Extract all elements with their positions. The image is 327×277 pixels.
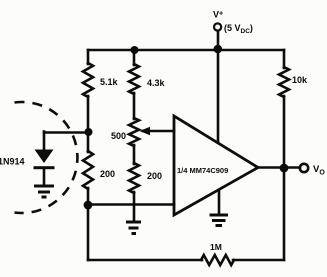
svg-text:5.1k: 5.1k	[100, 77, 119, 87]
node A (diode / 5.1k / 200)	[85, 128, 93, 136]
potentiometer R 500	[129, 118, 139, 146]
op-amp U1 comparator triangle	[174, 116, 258, 215]
wire op-amp ground stub	[218, 191, 221, 214]
svg-text:200: 200	[100, 169, 115, 179]
wire right column (rail corner to 10k)	[283, 50, 286, 68]
ground (middle, below lower-input wire)	[126, 222, 141, 234]
junction dot rail/4.3k	[131, 46, 139, 54]
resistor R 1M (horizontal)	[201, 255, 234, 265]
wire left column upper (rail to 5.1k)	[87, 50, 90, 64]
potentiometer wiper arrow	[140, 127, 151, 135]
wire bottom rail left of 1M	[88, 259, 202, 262]
svg-text:10k: 10k	[292, 75, 308, 85]
output terminal circle Vo	[300, 164, 308, 172]
wire 5.1k to node A	[87, 96, 90, 152]
wire diode node horizontal	[44, 131, 88, 134]
wire bottom rail right of 1M	[233, 259, 284, 262]
node output junction	[280, 164, 289, 173]
wire V+ terminal to rail	[217, 31, 220, 50]
ground (below diode)	[34, 186, 54, 197]
wire lower input (node B to op-amp - input)	[88, 203, 174, 206]
resistor R 4.3k	[129, 64, 139, 94]
svg-text:500: 500	[111, 131, 126, 141]
wire 10k to output node and down to bottom rail	[283, 96, 286, 260]
wire V+ rail to op-amp supply pin	[217, 50, 220, 141]
wire middle column upper (rail to 4.3k)	[133, 50, 136, 65]
dashed light-shield arc around diode	[15, 102, 78, 213]
svg-text:4.3k: 4.3k	[147, 78, 166, 88]
wire 4.3k to pot	[133, 93, 136, 119]
wire diode vertical stub	[43, 132, 46, 151]
junction dot rail/V+	[214, 45, 223, 54]
wire op-amp output	[258, 166, 300, 169]
wire top rail	[88, 49, 284, 52]
svg-text:1M: 1M	[210, 242, 222, 252]
wire diode cathode to ground	[43, 168, 46, 185]
resistor R 200 (left)	[83, 151, 93, 189]
wire pot wiper to op-amp + input	[143, 130, 174, 133]
svg-text:1/4 MM74C909: 1/4 MM74C909	[177, 166, 228, 175]
resistor R 200 (middle)	[129, 163, 139, 193]
resistor R 10k	[279, 67, 289, 97]
svg-text:1N914: 1N914	[0, 157, 25, 167]
V+ terminal circle	[214, 23, 221, 30]
ground (op-amp)	[210, 215, 229, 226]
wire 200M bottom through lower-input wire to ground stub	[133, 192, 136, 220]
resistor R 5.1k	[83, 63, 93, 97]
diode D1 1N914 (photodiode)	[34, 150, 55, 170]
wire pot to 200 mid	[133, 145, 136, 164]
wire 200L bottom to bottom rail corner	[87, 188, 90, 260]
svg-text:200: 200	[147, 171, 162, 181]
node B (200L bottom / feedback)	[84, 201, 93, 210]
